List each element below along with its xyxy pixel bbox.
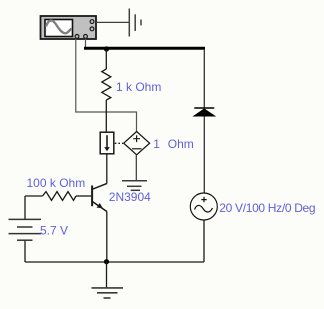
svg-text:1: 1 <box>153 137 160 151</box>
label 1 k Ohm <box>116 80 161 94</box>
dotted control link <box>115 142 123 144</box>
svg-text:Ohm: Ohm <box>168 137 194 151</box>
current sense box of CCVS <box>100 132 114 154</box>
wire thick top bus <box>84 47 205 50</box>
wire diode to source <box>203 117 205 195</box>
node junction top <box>104 46 109 51</box>
wire emitter down <box>106 212 108 262</box>
wire bottom bus <box>25 261 204 263</box>
label 1 Ohm <box>153 137 194 151</box>
label 5.7 V <box>40 224 68 238</box>
label 20 V/100 Hz/0 Deg <box>219 201 315 215</box>
transistor Q1 2N3904 <box>91 183 107 211</box>
label 2N3904 <box>109 190 151 204</box>
wire box to collector <box>106 154 108 184</box>
wire scope channel down-right to CCVS <box>76 39 137 132</box>
wire scope terminal down <box>85 39 87 48</box>
svg-text:100 k Ohm: 100 k Ohm <box>27 176 86 190</box>
svg-text:1 k Ohm: 1 k Ohm <box>116 80 161 94</box>
wire scope ground terminal to ground <box>96 21 129 23</box>
wire source to bottom bus <box>203 220 205 263</box>
diode D1 <box>194 108 215 116</box>
wire top bus down to diode <box>203 50 205 108</box>
wire base lead <box>76 195 91 197</box>
battery V1 5.7 V <box>9 196 42 262</box>
ground (rotated, top right) <box>129 9 141 37</box>
resistor R2 100 kOhm (horizontal) <box>25 192 76 201</box>
svg-text:2N3904: 2N3904 <box>109 190 151 204</box>
node junction bottom <box>104 259 109 264</box>
wire junction to ground <box>106 262 108 287</box>
ground (bottom center) <box>92 288 124 298</box>
svg-text:20 V/100 Hz/0 Deg: 20 V/100 Hz/0 Deg <box>219 201 315 215</box>
oscilloscope XSC1 <box>41 16 97 39</box>
AC source V2 <box>190 193 217 220</box>
wire diamond to ground <box>135 155 137 180</box>
ground (below diamond) <box>122 181 147 191</box>
resistor R1 1 kOhm (vertical) <box>102 50 111 132</box>
label 100 k Ohm <box>27 176 86 190</box>
svg-text:5.7 V: 5.7 V <box>40 224 68 238</box>
controlled source diamond U1 <box>124 132 150 155</box>
